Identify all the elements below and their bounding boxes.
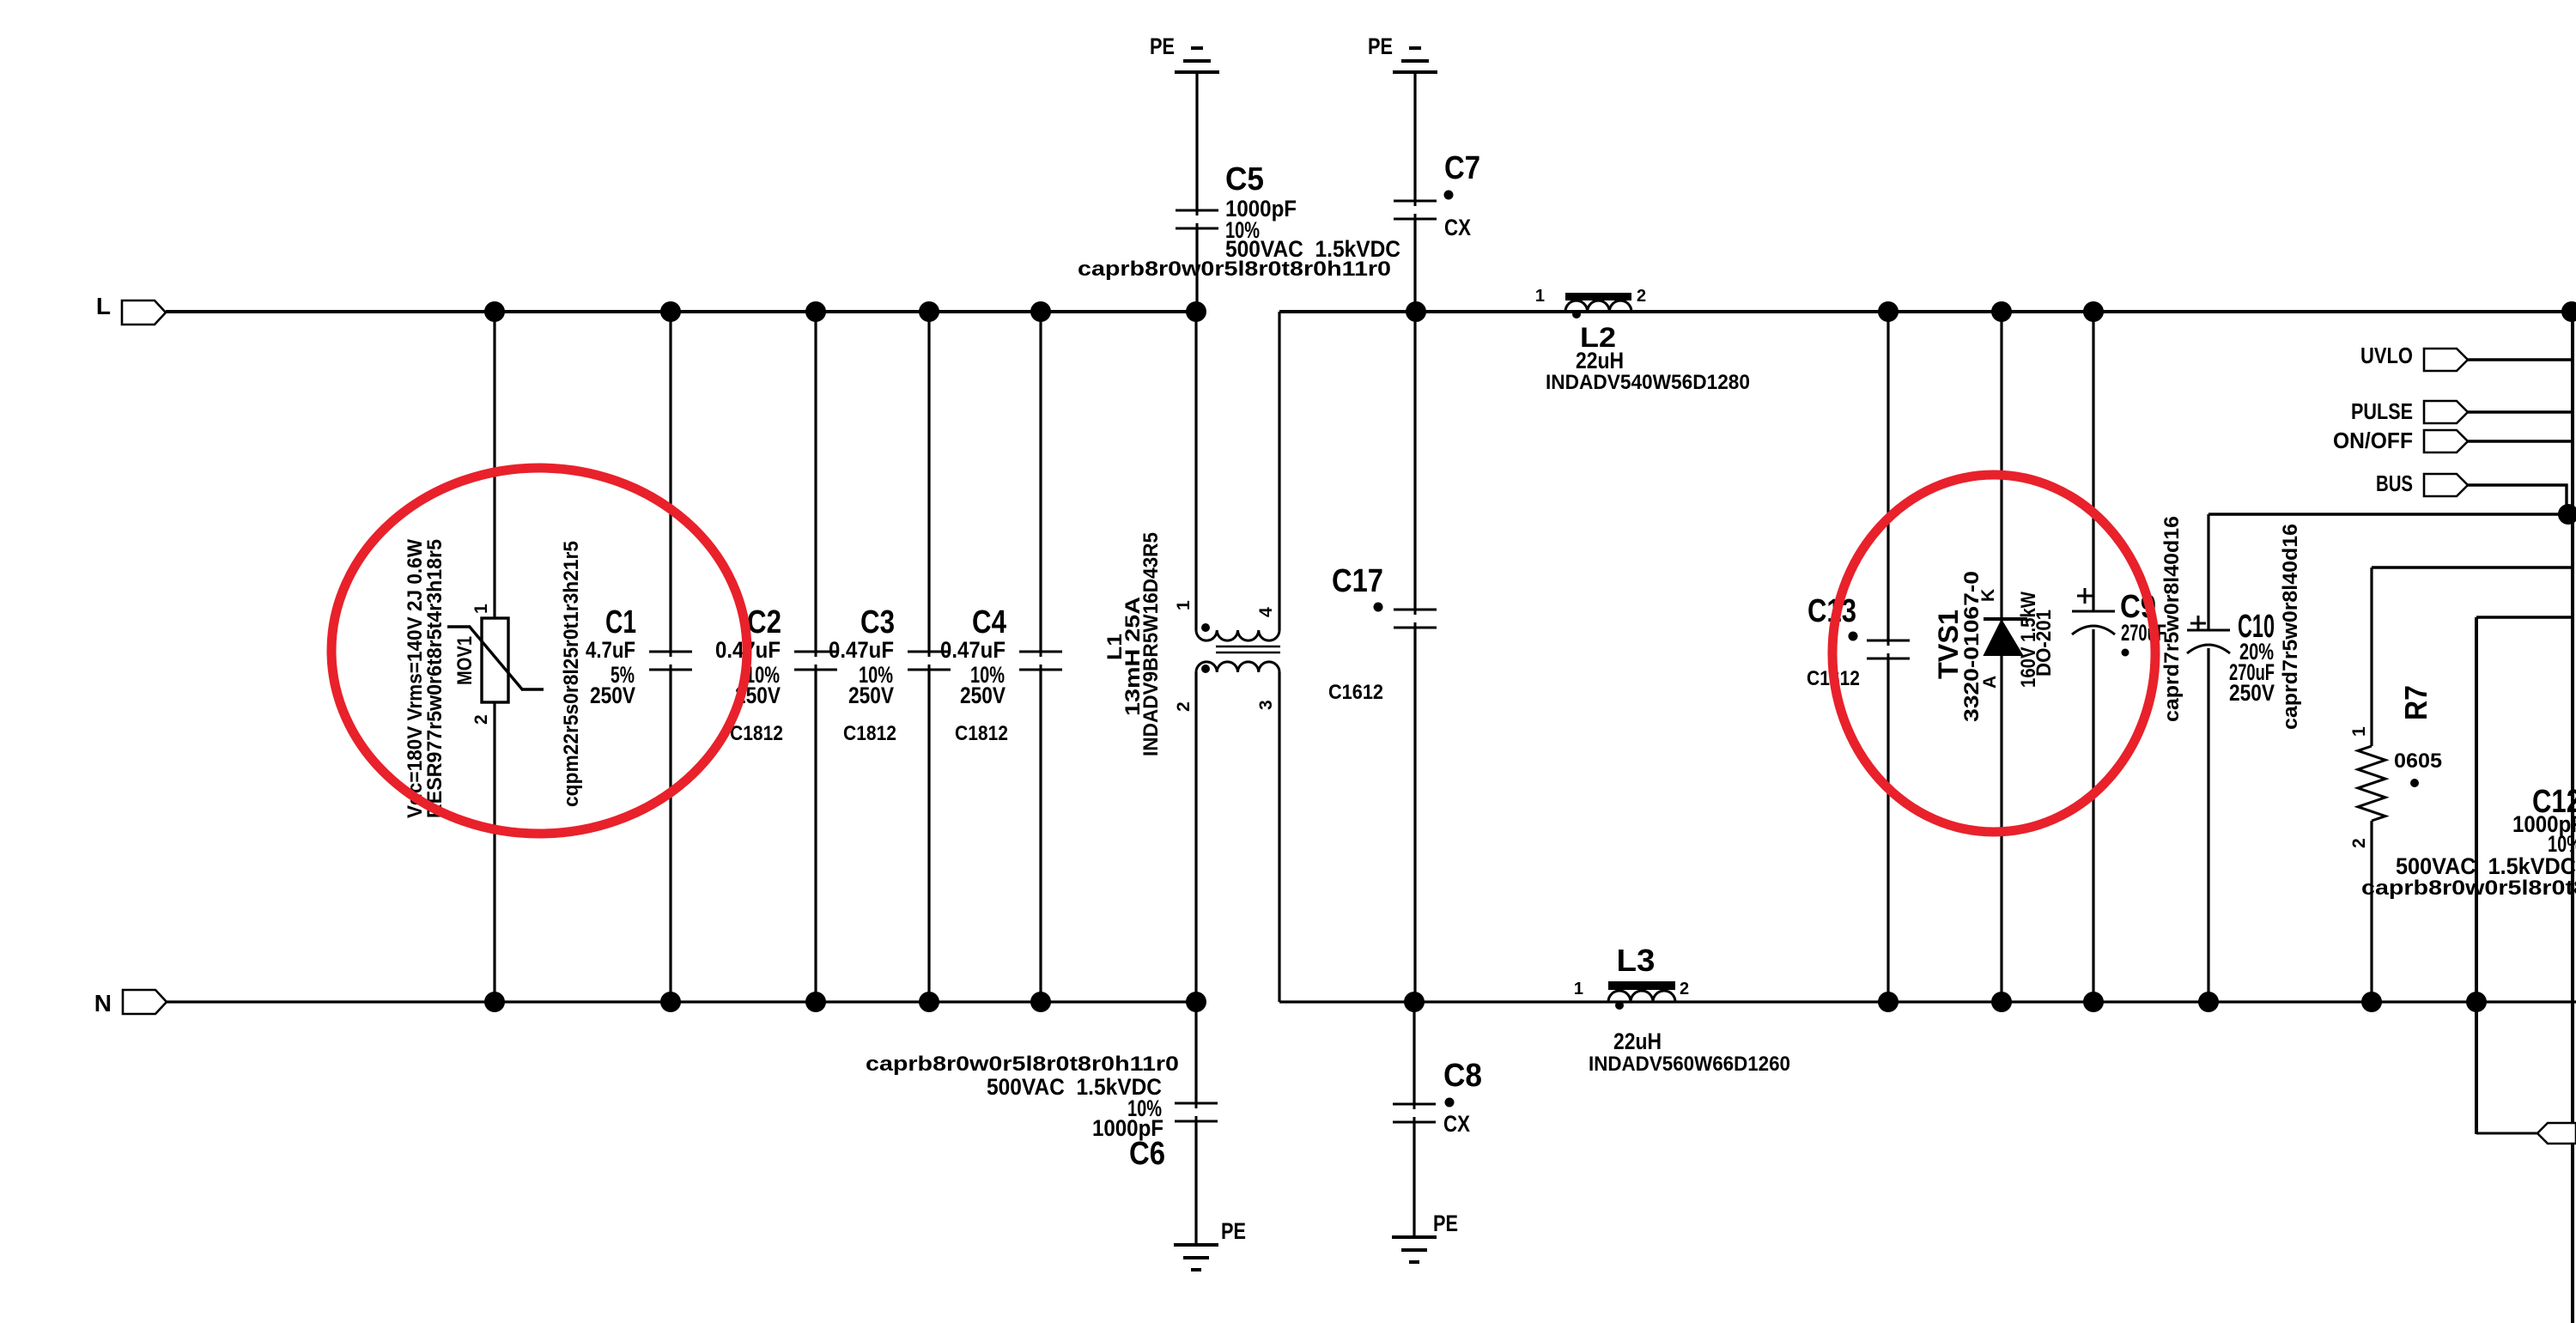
junction N rail / R7 bbox=[2361, 992, 2382, 1012]
svg-text:C1812: C1812 bbox=[843, 722, 896, 745]
capacitor C8 bbox=[1393, 1002, 1482, 1237]
svg-text:2: 2 bbox=[1174, 701, 1194, 712]
capacitor C10 bbox=[2187, 514, 2302, 1002]
svg-text:4.7uF: 4.7uF bbox=[586, 637, 635, 663]
svg-text:2: 2 bbox=[471, 714, 491, 725]
node L input connector bbox=[96, 293, 166, 325]
common-mode choke L1 bbox=[1103, 312, 1280, 1002]
svg-text:2: 2 bbox=[2349, 838, 2369, 848]
junction N rail / C8/C17 bbox=[1404, 992, 1425, 1012]
junction L rail / TVS1 bbox=[1991, 301, 2012, 322]
junction L rail / C1 bbox=[660, 301, 681, 322]
capacitor C7 bbox=[1394, 72, 1480, 312]
capacitor C12 bbox=[2361, 617, 2576, 1134]
svg-text:1: 1 bbox=[1574, 980, 1583, 998]
svg-text:caprd7r5w0r8l40d16: caprd7r5w0r8l40d16 bbox=[2160, 516, 2184, 722]
annotation red ellipse around MOV1 bbox=[331, 468, 747, 834]
capacitor C3 bbox=[829, 312, 951, 1002]
wire right edge vertical bbox=[2571, 312, 2574, 1323]
ground PE top left bbox=[1150, 33, 1219, 72]
svg-text:2: 2 bbox=[1637, 287, 1646, 306]
ground PE top right bbox=[1368, 33, 1437, 72]
varistor MOV1 bbox=[404, 312, 544, 1002]
junction N rail / C2 bbox=[805, 992, 826, 1012]
svg-text:L: L bbox=[96, 293, 111, 319]
capacitor C6 bbox=[866, 1002, 1218, 1245]
svg-text:C8: C8 bbox=[1443, 1058, 1482, 1094]
capacitor C2 bbox=[715, 312, 837, 1002]
svg-text:PE: PE bbox=[1150, 33, 1175, 59]
junction N rail / C10 bbox=[2198, 992, 2219, 1012]
svg-text:caprb8r0w0r5l8r0t8r0h11r0: caprb8r0w0r5l8r0t8r0h11r0 bbox=[1078, 258, 1391, 281]
svg-text:CX: CX bbox=[1443, 1111, 1470, 1137]
junction N rail / C12 bbox=[2466, 992, 2487, 1012]
svg-text:250V: 250V bbox=[2229, 680, 2275, 706]
junction L rail / C13 bbox=[1878, 301, 1899, 322]
wire N rail left segment bbox=[167, 1000, 1196, 1003]
junction L rail / C5/L1 bbox=[1186, 301, 1206, 322]
svg-text:PE: PE bbox=[1221, 1218, 1246, 1244]
svg-text:3320-01067-0: 3320-01067-0 bbox=[1960, 571, 1984, 722]
svg-text:C1: C1 bbox=[605, 604, 636, 640]
node ON/OFF bbox=[2333, 428, 2573, 453]
capacitor C4 bbox=[940, 312, 1062, 1002]
svg-text:C2: C2 bbox=[747, 604, 781, 640]
svg-text:MOV1: MOV1 bbox=[453, 636, 477, 685]
svg-text:C7: C7 bbox=[1444, 150, 1480, 186]
svg-text:C6: C6 bbox=[1129, 1136, 1165, 1172]
ground PE bottom left bbox=[1174, 1218, 1246, 1270]
svg-text:1: 1 bbox=[1174, 600, 1194, 610]
junction N rail / MOV1 bbox=[484, 992, 505, 1012]
svg-text:PE: PE bbox=[1433, 1211, 1458, 1236]
wire BUS to C10 horizontal bbox=[2208, 513, 2574, 516]
junction L rail / C4 bbox=[1030, 301, 1051, 322]
TVS diode TVS1 bbox=[1933, 312, 2056, 1002]
wire C12 top horizontal bbox=[2476, 616, 2573, 619]
node N input connector bbox=[94, 990, 167, 1017]
svg-text:CX: CX bbox=[1444, 215, 1471, 240]
svg-text:caprb8r0w0r5l8r0t8r0h11r0: caprb8r0w0r5l8r0t8r0h11r0 bbox=[2361, 877, 2576, 900]
svg-text:UVLO: UVLO bbox=[2360, 343, 2413, 368]
svg-text:2: 2 bbox=[1680, 980, 1689, 998]
svg-text:1: 1 bbox=[471, 604, 491, 614]
wire L rail right segment bbox=[1279, 310, 2576, 313]
node BUS bbox=[2376, 470, 2567, 514]
wire L rail left segment bbox=[166, 310, 1196, 313]
junction N rail / C6 bbox=[1186, 992, 1206, 1012]
svg-text:0.47uF: 0.47uF bbox=[940, 637, 1005, 663]
junction L rail / C7/C17 bbox=[1406, 301, 1426, 322]
svg-text:C4: C4 bbox=[972, 604, 1006, 640]
svg-text:caprd7r5w0r8l40d16: caprd7r5w0r8l40d16 bbox=[2279, 524, 2302, 730]
svg-text:C1812: C1812 bbox=[955, 722, 1008, 745]
wire R7 top horizontal bbox=[2372, 566, 2573, 569]
svg-text:cqpm22r5s0r8l25r0t1r3h21r5: cqpm22r5s0r8l25r0t1r3h21r5 bbox=[560, 541, 583, 807]
svg-text:N: N bbox=[94, 990, 112, 1017]
svg-text:caprb8r0w0r5l8r0t8r0h11r0: caprb8r0w0r5l8r0t8r0h11r0 bbox=[866, 1053, 1179, 1076]
capacitor C1 bbox=[560, 312, 692, 1002]
junction N rail / C13 bbox=[1878, 992, 1899, 1012]
junction N rail / C4 bbox=[1030, 992, 1051, 1012]
svg-text:PULSE: PULSE bbox=[2351, 398, 2413, 424]
junction N rail / C1 bbox=[660, 992, 681, 1012]
inductor L3 bbox=[1574, 943, 1790, 1076]
svg-text:BUS: BUS bbox=[2376, 470, 2413, 496]
svg-text:22uH: 22uH bbox=[1613, 1029, 1662, 1054]
resistor R7 bbox=[2349, 567, 2442, 1002]
annotation red ellipse around TVS1 bbox=[1832, 475, 2155, 832]
svg-text:1: 1 bbox=[2349, 726, 2369, 737]
svg-text:RESR977r5w0r6t8r5t4r3h18r5: RESR977r5w0r6t8r5t4r3h18r5 bbox=[423, 539, 447, 818]
svg-text:C5: C5 bbox=[1225, 161, 1264, 197]
node UVLO bbox=[2360, 343, 2573, 371]
svg-text:PE: PE bbox=[1368, 33, 1393, 59]
svg-text:1: 1 bbox=[1535, 287, 1545, 306]
svg-text:C1612: C1612 bbox=[1328, 681, 1383, 704]
svg-text:ON/OFF: ON/OFF bbox=[2333, 428, 2413, 453]
junction L rail / right edge bbox=[2561, 301, 2576, 322]
svg-text:DO-201: DO-201 bbox=[2032, 610, 2056, 677]
junction L rail / MOV1 bbox=[484, 301, 505, 322]
svg-text:250V: 250V bbox=[848, 683, 894, 708]
svg-text:0.47uF: 0.47uF bbox=[829, 637, 894, 663]
node PULSE bbox=[2351, 398, 2573, 424]
ground PE bottom right bbox=[1392, 1211, 1458, 1262]
junction N rail / C3 bbox=[919, 992, 939, 1012]
wire N rail right segment bbox=[1279, 1000, 2576, 1003]
svg-text:C1812: C1812 bbox=[730, 722, 783, 745]
svg-text:INDADV9BR5W16D43R5: INDADV9BR5W16D43R5 bbox=[1139, 532, 1163, 756]
junction N rail / TVS1 bbox=[1991, 992, 2012, 1012]
svg-text:0605: 0605 bbox=[2394, 749, 2442, 773]
svg-text:500VAC 1.5kVDC: 500VAC 1.5kVDC bbox=[2396, 853, 2576, 879]
svg-text:3: 3 bbox=[1256, 700, 1276, 710]
node connector bottom right bbox=[2537, 1123, 2576, 1144]
junction L rail / C3 bbox=[919, 301, 939, 322]
svg-text:250V: 250V bbox=[590, 683, 635, 708]
junction N rail / C9 bbox=[2083, 992, 2104, 1012]
capacitor C13 bbox=[1807, 312, 1910, 1002]
svg-text:INDADV540W56D1280: INDADV540W56D1280 bbox=[1546, 371, 1750, 394]
capacitor C17 bbox=[1328, 312, 1437, 1002]
junction L rail / C2 bbox=[805, 301, 826, 322]
inductor L2 bbox=[1535, 287, 1750, 394]
svg-text:250V: 250V bbox=[960, 683, 1005, 708]
svg-text:R7: R7 bbox=[2398, 685, 2433, 720]
svg-text:L3: L3 bbox=[1617, 943, 1656, 978]
capacitor C9 bbox=[2072, 312, 2184, 1002]
junction BUS wire / right edge bbox=[2558, 504, 2576, 525]
svg-text:TVS1: TVS1 bbox=[1933, 610, 1964, 679]
svg-text:INDADV560W66D1260: INDADV560W66D1260 bbox=[1589, 1053, 1790, 1076]
svg-text:C3: C3 bbox=[860, 604, 895, 640]
junction L rail / C9 bbox=[2083, 301, 2104, 322]
svg-text:4: 4 bbox=[1256, 607, 1276, 617]
svg-text:22uH: 22uH bbox=[1576, 348, 1624, 373]
capacitor C5 bbox=[1078, 72, 1400, 312]
svg-text:C17: C17 bbox=[1332, 563, 1383, 599]
